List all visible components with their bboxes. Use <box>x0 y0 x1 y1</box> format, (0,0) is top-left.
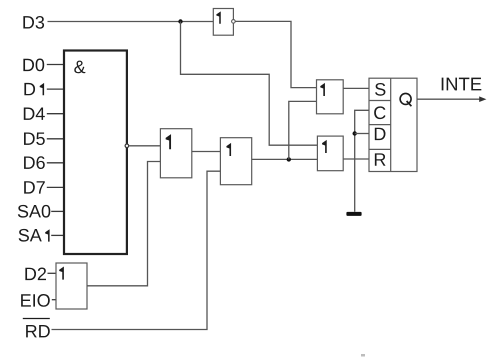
wire <box>47 64 65 66</box>
AND gate U1 <box>64 51 129 255</box>
wire <box>417 96 486 102</box>
node RD (active low) <box>23 319 50 338</box>
node D4 <box>24 108 45 120</box>
wire <box>343 158 369 160</box>
wire <box>235 21 316 87</box>
ground <box>346 212 361 216</box>
node INTE <box>442 78 482 91</box>
wire <box>343 87 369 89</box>
wire <box>48 272 57 274</box>
wire <box>47 138 65 140</box>
wire <box>355 110 369 212</box>
junction <box>178 19 182 23</box>
pin C <box>374 106 385 119</box>
OR gate U4 <box>220 138 251 185</box>
inverter U2 <box>213 9 235 36</box>
wire <box>51 210 64 212</box>
wire <box>181 22 318 146</box>
wire <box>192 151 221 153</box>
OR gate U3 <box>160 129 191 178</box>
artifact mark <box>361 354 365 357</box>
wire <box>252 158 318 160</box>
node D2 <box>25 268 46 281</box>
wire <box>51 234 64 236</box>
node D3 <box>23 16 44 29</box>
node SA1 <box>19 229 50 242</box>
pin R <box>375 153 386 165</box>
wire <box>47 88 65 90</box>
pin Q <box>400 93 411 104</box>
wire <box>289 101 317 159</box>
pin S <box>375 83 385 96</box>
node EIO <box>21 294 50 307</box>
wire <box>47 113 65 115</box>
wire <box>52 299 57 301</box>
wire <box>47 162 65 164</box>
junction <box>353 131 357 135</box>
node D6 <box>24 156 45 169</box>
pin D <box>375 128 386 140</box>
wire <box>48 21 214 23</box>
node D5 <box>24 132 45 145</box>
node D1 <box>24 83 44 95</box>
node SA0 <box>18 205 51 218</box>
node D7 <box>24 181 45 193</box>
OR gate U7 <box>56 263 87 309</box>
node D0 <box>23 59 44 72</box>
flip-flop U8 <box>369 78 417 171</box>
wire <box>52 171 221 329</box>
wire <box>355 133 369 135</box>
wire <box>129 145 161 147</box>
OR gate U6 <box>317 136 343 171</box>
junction <box>287 157 291 161</box>
wire <box>47 186 65 188</box>
wire <box>87 162 160 286</box>
OR gate U5 <box>317 80 344 114</box>
